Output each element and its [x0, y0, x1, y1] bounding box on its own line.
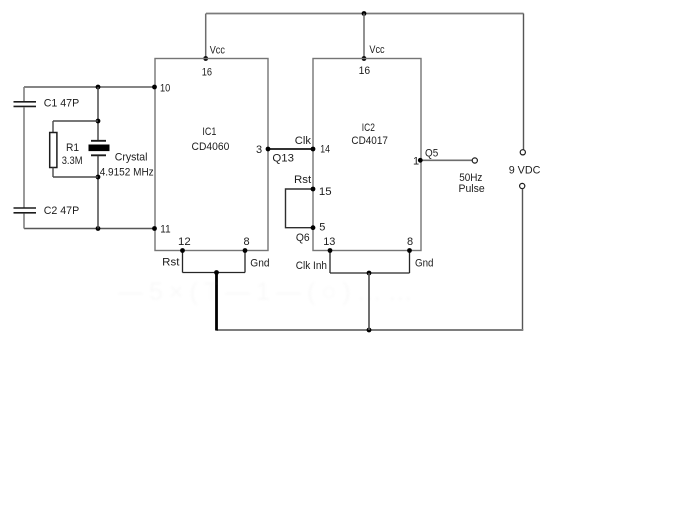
svg-text:Pulse: Pulse: [459, 183, 485, 195]
wire ground bottom rail: [217, 329, 524, 331]
svg-text:14: 14: [320, 143, 330, 155]
label Gnd (IC1 pin8): [250, 258, 269, 270]
pin label 5: [319, 222, 325, 234]
label C1 47P: [44, 98, 79, 110]
terminal 50Hz output: [472, 158, 477, 163]
svg-text:CD4060: CD4060: [192, 141, 230, 153]
capacitor C2: [14, 208, 37, 213]
wire left rail lower segment: [23, 214, 25, 229]
wire top Vcc rail: [206, 13, 524, 15]
pin label 16 (IC2): [359, 65, 371, 77]
wire IC2 ground bracket pins 13 and 8: [330, 251, 410, 274]
wire left rail upper segment: [23, 87, 25, 101]
svg-text:Clk Inh: Clk Inh: [296, 260, 327, 272]
junction IC2 pin13: [328, 248, 333, 253]
label CD4017: [351, 135, 388, 147]
watermark: [118, 278, 419, 306]
svg-text:IC2: IC2: [362, 122, 375, 134]
label 4.9152 MHz: [100, 167, 154, 179]
svg-text:Gnd: Gnd: [250, 258, 269, 270]
resistor R1 3.3M: [50, 133, 57, 168]
capacitor C1: [14, 102, 37, 107]
svg-text:10: 10: [160, 83, 170, 95]
svg-text:Q6: Q6: [296, 232, 310, 244]
svg-text:C2 47P: C2 47P: [44, 205, 79, 217]
label Rst (IC1 pin12): [162, 256, 179, 268]
svg-text:CD4017: CD4017: [351, 135, 388, 147]
junction pin10: [152, 85, 157, 90]
label Clk Inh: [296, 260, 327, 272]
junction pin5: [311, 225, 316, 230]
svg-text:4.9152 MHz: 4.9152 MHz: [100, 167, 154, 179]
junction crystal top node: [96, 85, 101, 90]
pin label 13: [323, 236, 335, 248]
wire IC2 Vcc drop: [363, 14, 365, 59]
wire R1 top connection: [53, 121, 98, 133]
wire IC2 ground drop: [368, 273, 370, 330]
junction R1 bottom node: [96, 175, 101, 180]
junction IC2 pin16: [362, 56, 367, 61]
svg-text:3: 3: [256, 144, 262, 156]
wire IC1 ground drop (thick): [215, 273, 218, 331]
svg-text:Rst: Rst: [162, 256, 179, 268]
pin label 16 (IC1): [202, 67, 212, 79]
junction IC1 pin12: [180, 248, 185, 253]
svg-text:Gnd: Gnd: [415, 258, 434, 270]
op IC1 CD4060 box: [155, 59, 268, 251]
label Vcc (IC1): [210, 45, 226, 57]
svg-text:8: 8: [407, 236, 413, 248]
pin label 8 (IC1): [244, 236, 250, 248]
wire crystal branch lower: [97, 156, 99, 229]
pin label 11: [160, 224, 170, 236]
svg-text:5: 5: [319, 222, 325, 234]
svg-text:Rst: Rst: [294, 174, 311, 186]
wire oscillator top (pin10): [24, 86, 155, 88]
label Gnd (IC2 pin8): [415, 258, 434, 270]
wire right drop to 9VDC plus terminal: [523, 14, 525, 150]
svg-text:Vcc: Vcc: [210, 45, 226, 57]
wire IC1 ground bracket pins 12 and 8: [183, 251, 246, 273]
op IC2 CD4017 box: [313, 59, 421, 251]
junction crystal bottom node: [96, 226, 101, 231]
junction IC1 pin16: [203, 56, 208, 61]
wire left rail middle segment: [23, 107, 25, 208]
junction IC1 pin8: [243, 248, 248, 253]
svg-text:1: 1: [413, 156, 419, 168]
wire R1 bottom connection: [53, 168, 98, 178]
label 3.3M: [62, 155, 83, 167]
label Crystal: [115, 151, 148, 163]
wire crystal branch upper: [97, 87, 99, 140]
svg-text:3.3M: 3.3M: [62, 155, 83, 167]
svg-text:16: 16: [359, 65, 371, 77]
svg-text:9 VDC: 9 VDC: [509, 165, 541, 177]
label Pulse: [459, 183, 485, 195]
label Rst (pin15): [294, 174, 311, 186]
label IC2: [362, 122, 375, 134]
label Q13: [272, 153, 294, 165]
label CD4060: [192, 141, 230, 153]
pin label 8 (IC2): [407, 236, 413, 248]
junction pin14: [311, 147, 316, 152]
wire 9VDC minus down to ground rail: [522, 189, 524, 330]
junction pin3: [266, 147, 271, 152]
svg-text:12: 12: [178, 236, 191, 248]
svg-text:C1 47P: C1 47P: [44, 98, 79, 110]
pin label 10: [160, 83, 170, 95]
label Clk: [295, 135, 312, 147]
svg-text:11: 11: [160, 224, 170, 236]
junction R1 top node: [96, 119, 101, 124]
terminal 9VDC minus: [520, 183, 525, 188]
junction IC2 bracket center: [367, 271, 372, 276]
terminal 9VDC plus: [520, 150, 525, 155]
svg-text:Vcc: Vcc: [369, 44, 385, 56]
pin label 15: [319, 186, 332, 198]
svg-text:15: 15: [319, 186, 332, 198]
svg-text:IC1: IC1: [202, 126, 216, 138]
svg-text:16: 16: [202, 67, 212, 79]
label Q6: [296, 232, 310, 244]
wire IC1 pin3 to IC2 pin14: [268, 148, 313, 150]
label 9 VDC: [509, 165, 541, 177]
label R1: [66, 142, 79, 154]
svg-text:Crystal: Crystal: [115, 151, 148, 163]
svg-text:8: 8: [244, 236, 250, 248]
svg-text:Clk: Clk: [295, 135, 312, 147]
svg-text:Q13: Q13: [272, 153, 294, 165]
wire IC2 pin1 Q5 output: [421, 159, 472, 161]
junction top rail to IC2 Vcc: [362, 11, 367, 16]
junction pin11: [152, 226, 157, 231]
label 50Hz: [459, 172, 482, 184]
label Q5: [425, 148, 438, 160]
junction pin15: [311, 187, 316, 192]
svg-text:Q5: Q5: [425, 148, 438, 160]
label Vcc (IC2): [369, 44, 385, 56]
svg-text:—5×(T—1—(○)……: —5×(T—1—(○)……: [118, 278, 419, 306]
crystal X1 4.9152MHz: [89, 141, 110, 156]
svg-text:R1: R1: [66, 142, 79, 154]
wire IC2 Rst loop pin15 to pin5: [286, 189, 314, 228]
junction pin1: [418, 158, 423, 163]
pin label 14: [320, 143, 330, 155]
pin label 12: [178, 236, 191, 248]
junction IC1 bracket center: [214, 270, 219, 275]
wire oscillator bottom (pin11): [24, 228, 155, 230]
pin label 3: [256, 144, 262, 156]
junction IC2 pin8 gnd: [407, 248, 412, 253]
label IC1: [202, 126, 216, 138]
junction ground rail IC2 drop: [367, 328, 372, 333]
svg-text:13: 13: [323, 236, 335, 248]
label C2 47P: [44, 205, 79, 217]
wire IC1 Vcc drop: [205, 14, 207, 59]
pin label 1: [413, 156, 419, 168]
